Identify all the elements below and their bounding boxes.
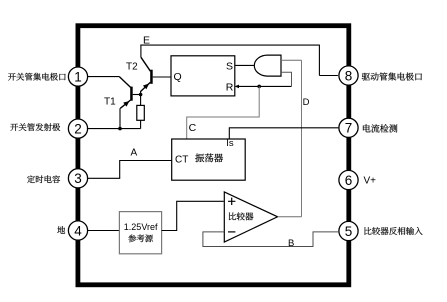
svg-text:C: C bbox=[189, 122, 197, 134]
IC package outline bbox=[78, 26, 349, 285]
junction T2 emitter / T1 base bbox=[139, 93, 143, 97]
pin 5 bbox=[339, 221, 358, 240]
svg-text:3: 3 bbox=[74, 171, 82, 186]
wire node E horizontal bbox=[140, 44, 319, 46]
svg-text:6: 6 bbox=[345, 173, 353, 188]
pin 1 bbox=[68, 67, 87, 86]
AND gate U (mirrored, output left) bbox=[254, 55, 281, 76]
wire pin 4 to Vref box bbox=[88, 230, 120, 232]
svg-text:Is: Is bbox=[226, 138, 234, 149]
flip-flop (S-R latch) box bbox=[171, 56, 235, 96]
wire S input from AND output bbox=[235, 64, 256, 66]
1.25V reference box bbox=[119, 212, 161, 254]
pin 3 label 定时电容 bbox=[27, 175, 60, 183]
comparator + input mark bbox=[228, 198, 235, 205]
svg-text:D: D bbox=[303, 97, 310, 108]
transistor Q T2 bbox=[141, 57, 153, 91]
wire pin 2 rail bbox=[87, 128, 141, 130]
resistor (T2 emitter to pin2) bbox=[137, 105, 145, 120]
comparator label 比较器 bbox=[229, 212, 254, 220]
oscillator box bbox=[172, 139, 246, 180]
wire comparator output to node D bbox=[278, 216, 302, 218]
wire node E: T2 collector up bbox=[140, 45, 142, 58]
svg-text:1.25Vref: 1.25Vref bbox=[124, 222, 158, 232]
svg-text:R: R bbox=[226, 81, 234, 93]
comparator - input mark bbox=[228, 231, 235, 233]
wire node A: pin 3 to oscillator CT bbox=[88, 161, 172, 179]
wire pin 7 to oscillator Is bbox=[229, 128, 338, 139]
wire T1 base bbox=[133, 94, 141, 96]
pin 1 label 开关管集电极口 bbox=[8, 73, 66, 81]
svg-text:4: 4 bbox=[74, 223, 82, 238]
svg-text:1: 1 bbox=[74, 69, 82, 84]
svg-text:8: 8 bbox=[345, 68, 353, 83]
wire Vref output to comparator + input bbox=[162, 201, 224, 230]
op-amp comparator bbox=[224, 192, 277, 242]
svg-text:V+: V+ bbox=[364, 175, 377, 186]
svg-text:A: A bbox=[131, 148, 138, 159]
R input arrowhead bbox=[235, 85, 239, 89]
svg-text:T2: T2 bbox=[126, 62, 138, 73]
svg-text:7: 7 bbox=[345, 121, 353, 136]
pin 4 label 地 bbox=[57, 226, 65, 233]
wire node D vertical (comparator out to AND) bbox=[301, 60, 303, 217]
pin 5 label 比较器反相输入 bbox=[364, 227, 422, 235]
wire pin1 to T1 collector bbox=[88, 76, 120, 78]
pin 7 bbox=[339, 118, 358, 137]
pin 2 label 开关管发射极 bbox=[10, 123, 60, 131]
pin 2 bbox=[68, 119, 87, 138]
pin 4 bbox=[68, 221, 87, 240]
label 参考源 bbox=[128, 234, 153, 242]
wire resistor bottom lead bbox=[140, 120, 142, 128]
wire AND top input from node D bbox=[281, 59, 302, 61]
svg-text:B: B bbox=[288, 238, 294, 249]
wire R input bbox=[238, 85, 292, 87]
svg-text:CT: CT bbox=[175, 154, 188, 165]
pin 8 label 驱动管集电极口 bbox=[362, 72, 422, 80]
wire T1 emitter to pin2 rail bbox=[119, 108, 121, 128]
wire AND bottom input jog bbox=[281, 72, 292, 86]
wire E down to pin 8 bbox=[318, 45, 320, 76]
wire resistor top lead / T2 emitter bbox=[140, 91, 142, 105]
svg-text:5: 5 bbox=[345, 224, 353, 239]
wire node B: comparator - input to pin 5 bbox=[203, 232, 339, 247]
wire to pin 8 bbox=[319, 75, 338, 77]
pin 3 bbox=[68, 169, 87, 188]
oscillator label 振荡器 bbox=[195, 153, 223, 162]
svg-text:S: S bbox=[226, 60, 233, 72]
svg-text:Q: Q bbox=[174, 71, 182, 83]
pin 8 bbox=[339, 66, 358, 85]
svg-text:2: 2 bbox=[74, 121, 82, 136]
pin 7 label 电流检测 bbox=[363, 124, 397, 132]
transistor Q T1 bbox=[119, 77, 132, 109]
pin 6 bbox=[339, 170, 358, 189]
junction R wire / oscillator C wire bbox=[257, 85, 261, 89]
junction T1 emitter / pin2 bbox=[118, 127, 122, 131]
svg-text:T1: T1 bbox=[104, 97, 116, 108]
wire T2 base to Q output bbox=[153, 76, 171, 78]
wire node C: oscillator to R junction bbox=[187, 86, 260, 139]
